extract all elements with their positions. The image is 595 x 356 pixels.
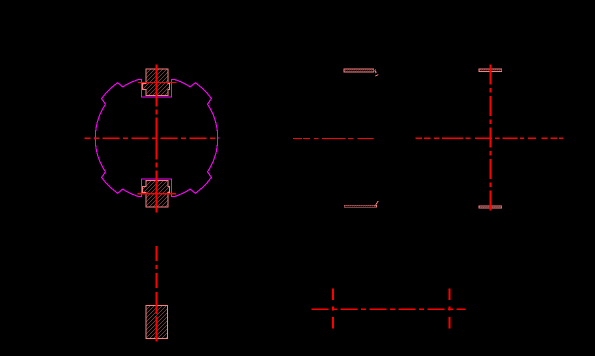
section view vertical centerline xyxy=(489,64,491,212)
bottom boss center mark horizontal xyxy=(138,193,177,195)
bottom T-bolt (salmon hatched cross section) xyxy=(143,181,170,208)
top T-bolt (salmon hatched cross section) xyxy=(143,69,170,96)
main view horizontal centerline xyxy=(85,137,219,139)
bottom section rectangle (salmon hatched) xyxy=(146,305,168,338)
side view: top strip break squiggle xyxy=(375,70,376,74)
side view: bottom strip (hatched) xyxy=(344,205,376,207)
side view: top strip (hatched) xyxy=(344,69,374,72)
section view: top strip (hatched) xyxy=(479,69,502,72)
bottom section centerline (dash-dot above, solid through) xyxy=(155,246,157,292)
side view horizontal centerline xyxy=(293,137,374,139)
section view horizontal centerline xyxy=(416,137,564,139)
main view vertical centerline xyxy=(156,65,158,214)
top boss center mark horizontal xyxy=(138,81,177,83)
section view: bottom strip (hatched) xyxy=(479,206,502,208)
bottom view right center mark vertical xyxy=(448,288,450,329)
bottom view horizontal centerline xyxy=(312,308,466,310)
side view: top strip small tick xyxy=(375,75,378,77)
bottom view left center mark vertical xyxy=(332,288,334,329)
side view: bottom strip break tail xyxy=(375,201,379,207)
main flange outline (magenta, circle with lugs, teeth and top/bottom T-slots) xyxy=(95,79,217,196)
